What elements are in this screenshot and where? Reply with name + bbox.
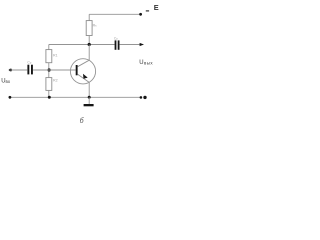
transistor VT1 circle: [70, 59, 95, 84]
wire R1 to base node: [48, 63, 50, 78]
svg-text:Uвх: Uвх: [1, 78, 11, 84]
wire divider top corner to R1: [48, 45, 50, 50]
svg-text:E: E: [154, 3, 159, 12]
bottom right terminal dot 2: [143, 96, 146, 99]
capacitor C1 input: [27, 65, 33, 75]
capacitor C2 output: [115, 40, 120, 49]
transistor VT1 base bar: [76, 65, 78, 75]
bottom right terminal dot: [140, 96, 143, 99]
junction R2 to rail: [48, 96, 51, 99]
svg-text:Cр: Cр: [27, 61, 31, 65]
output terminal arrow: [140, 43, 144, 46]
input terminal arrow: [8, 69, 12, 72]
resistor R1: [46, 50, 52, 63]
wire input to capacitor C1: [10, 69, 27, 71]
junction emitter to rail: [88, 96, 91, 99]
svg-text:R2: R2: [53, 79, 58, 83]
ground stub wire: [88, 97, 90, 104]
wire top rail to -E: [89, 13, 140, 15]
resistor R2: [46, 78, 52, 91]
node terminal dot -E: [139, 13, 142, 16]
wire top rail down to resistor Rk: [88, 14, 90, 20]
transistor VT1 collector lead: [78, 45, 90, 67]
svg-text:Uвых: Uвых: [139, 60, 153, 66]
input terminal dot: [9, 69, 12, 72]
wire Rk to collector node: [88, 36, 90, 45]
svg-text:Cр: Cр: [114, 37, 118, 41]
transistor VT1 emitter arrow: [83, 74, 88, 79]
wire R2 to bottom rail: [48, 90, 50, 97]
ground symbol bar: [84, 104, 94, 106]
junction collector node: [88, 43, 91, 46]
transistor VT1 emitter lead: [78, 74, 90, 97]
label minus sign: [146, 10, 149, 11]
bottom left terminal dot: [9, 96, 12, 99]
wire capacitor C2 to output terminal: [120, 44, 140, 46]
wire collector node horizontal: [49, 44, 115, 46]
junction base node: [48, 68, 51, 71]
wire bottom rail: [10, 96, 141, 98]
resistor Rk: [86, 21, 92, 36]
wire capacitor C1 to base: [33, 69, 76, 71]
svg-text:R1: R1: [53, 54, 58, 58]
